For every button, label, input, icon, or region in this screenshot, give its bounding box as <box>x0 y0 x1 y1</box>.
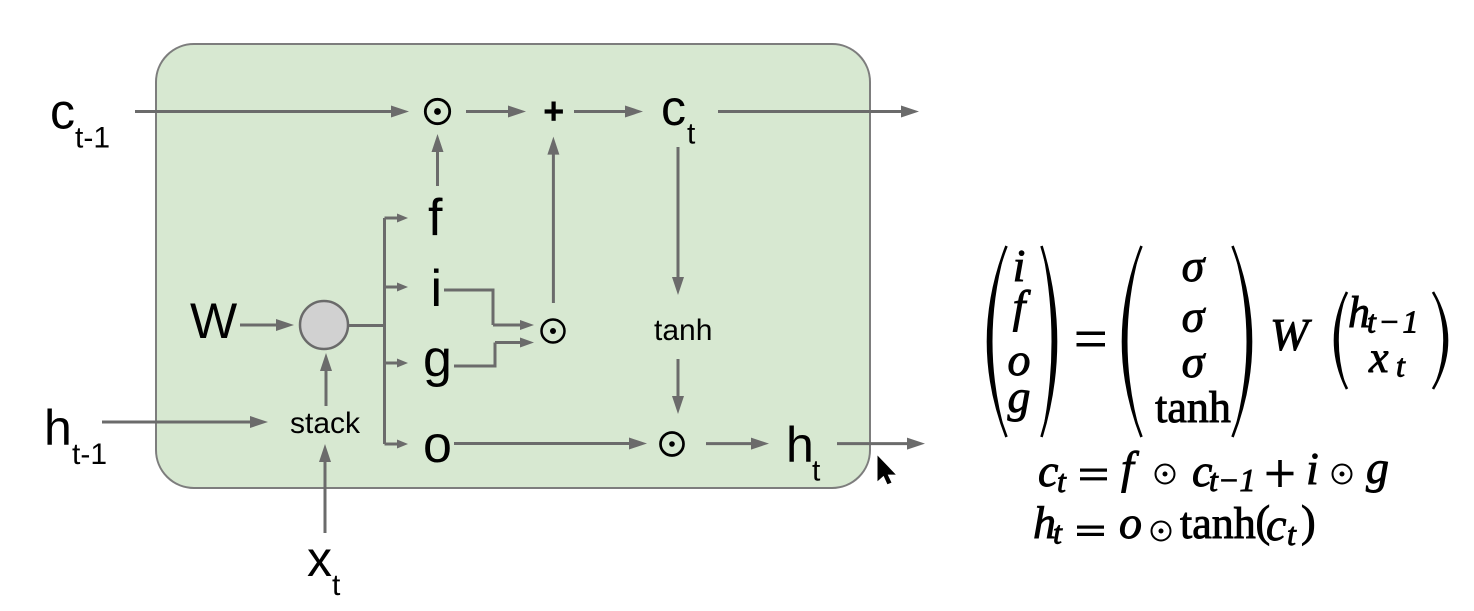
svg-text:): ) <box>1301 497 1316 546</box>
svg-text:x: x <box>1368 333 1389 382</box>
svg-text:tanh: tanh <box>1180 499 1256 548</box>
svg-text:t-1: t-1 <box>75 122 110 155</box>
svg-text:σ: σ <box>1182 240 1207 291</box>
svg-text:x: x <box>307 531 332 587</box>
svg-text:c: c <box>1266 499 1286 550</box>
svg-text:t: t <box>1396 348 1406 384</box>
svg-text:t: t <box>1053 515 1063 551</box>
svg-text:σ: σ <box>1182 336 1207 387</box>
svg-text:h: h <box>44 400 72 456</box>
svg-text:g: g <box>1366 442 1389 493</box>
svg-text:tanh: tanh <box>1155 383 1231 432</box>
svg-text:c: c <box>661 80 686 136</box>
svg-text:f: f <box>428 189 443 247</box>
svg-text:t: t <box>332 569 341 602</box>
svg-text:t: t <box>1287 516 1297 552</box>
svg-text:W: W <box>1270 309 1312 360</box>
svg-text:g: g <box>1008 371 1031 422</box>
svg-text:f: f <box>1121 442 1140 493</box>
svg-text:t-1: t-1 <box>72 438 107 471</box>
svg-text:o: o <box>1119 497 1142 548</box>
svg-text:i: i <box>431 260 443 318</box>
svg-text:stack: stack <box>290 407 361 440</box>
svg-text:σ: σ <box>1182 291 1207 342</box>
svg-text:W: W <box>190 293 238 349</box>
svg-text:h: h <box>786 417 814 473</box>
svg-text:g: g <box>423 330 452 388</box>
svg-text:t: t <box>1057 463 1067 499</box>
svg-text:t−1: t−1 <box>1209 462 1255 498</box>
svg-text:i: i <box>1306 443 1319 494</box>
svg-text:t: t <box>687 118 696 151</box>
svg-text:f: f <box>1013 281 1032 332</box>
svg-text:o: o <box>423 416 452 474</box>
svg-text:c: c <box>50 84 75 140</box>
svg-text:tanh: tanh <box>654 314 712 347</box>
svg-text:c: c <box>1038 445 1058 496</box>
svg-text:t: t <box>812 455 821 488</box>
